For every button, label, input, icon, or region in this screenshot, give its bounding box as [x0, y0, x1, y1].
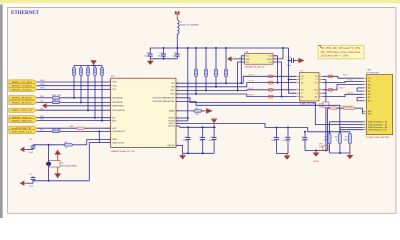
ground LED resistors	[349, 153, 351, 155]
wire	[37, 127, 111, 129]
resistor RD8 10K	[101, 65, 103, 67]
svg-text:IO2: IO2	[246, 62, 249, 64]
svg-text:27: 27	[109, 88, 111, 90]
wire TX+	[323, 76, 364, 78]
wire pin stub	[363, 80, 367, 82]
resistor SR21 DNP nRST line	[77, 127, 84, 129]
ferrite FB2 DNP	[268, 81, 273, 84]
svg-text:C30: C30	[288, 57, 291, 59]
svg-text:XTAL2: XTAL2	[112, 138, 117, 141]
capacitor C77	[32, 176, 34, 177]
port RMII_TXD1	[9, 87, 37, 91]
svg-text:RJ45-CR6-X0TNL: RJ45-CR6-X0TNL	[367, 137, 391, 139]
capacitor CT DNP pair	[323, 102, 329, 107]
wire pin stub	[363, 100, 367, 102]
svg-text:12: 12	[363, 123, 365, 125]
svg-text:1.0uF: 1.0uF	[29, 185, 33, 187]
svg-text:TD_P/N, RD_P/N and TX_P/N,: TD_P/N, RD_P/N and TX_P/N,	[321, 48, 362, 50]
resistor RD7 10K	[94, 65, 96, 67]
capacitor C69	[149, 48, 151, 51]
svg-text:14: 14	[363, 128, 365, 130]
svg-text:LED1/nINT/nPME/REGOFF: LED1/nINT/nPME/REGOFF	[153, 98, 176, 100]
svg-text:RD5: RD5	[79, 69, 82, 71]
capacitor C15	[202, 127, 204, 135]
svg-text:TX+: TX+	[368, 78, 371, 80]
ground SGND	[315, 151, 317, 153]
svg-text:VDD1A: VDD1A	[168, 117, 175, 120]
svg-text:TD-: TD-	[301, 82, 304, 84]
power symbol +3V3 top	[175, 11, 177, 13]
svg-text:12: 12	[109, 119, 111, 121]
svg-text:TXN: TXN	[171, 87, 175, 89]
port RMII_REF_CLK	[9, 129, 37, 133]
ground crystal case bottom	[57, 167, 59, 173]
wire	[37, 130, 52, 132]
wire cap bottoms	[150, 58, 177, 60]
resistor R77 49.9R	[215, 48, 217, 69]
wire pin stub	[363, 111, 367, 113]
wire pin stub	[319, 96, 323, 98]
svg-text:C77: C77	[29, 174, 32, 176]
svg-text:16: 16	[320, 75, 322, 77]
wire xtal top	[33, 144, 64, 146]
svg-text:T17: T17	[300, 70, 303, 72]
wire	[37, 109, 111, 111]
wire strap rail	[74, 64, 102, 66]
svg-text:nRST: nRST	[112, 128, 117, 130]
svg-text:RMII_RXD1: RMII_RXD1	[12, 102, 34, 104]
resistor RD4 10K	[73, 65, 75, 67]
svg-text:SH2: SH2	[368, 114, 372, 116]
resistor shield DNP 2	[343, 107, 355, 109]
resistor R48 1K	[64, 144, 72, 147]
ferrite FB4 DNP	[268, 95, 273, 98]
capacitor C16	[213, 127, 215, 135]
svg-text:VSS_EP: VSS_EP	[167, 145, 175, 147]
wire VBUS to rail	[273, 48, 283, 59]
capacitor C17	[187, 127, 189, 135]
svg-text:TXEN: TXEN	[112, 82, 117, 84]
wire VDD1A VDD2A to rail	[176, 117, 188, 119]
ground crystal case top	[57, 155, 59, 161]
capacitor C19	[276, 128, 278, 136]
wire TXP	[176, 76, 296, 83]
svg-text:15: 15	[320, 78, 322, 80]
wire pin stub	[296, 79, 300, 81]
wire NC stubs	[357, 87, 363, 89]
svg-text:TXD1: TXD1	[112, 89, 116, 91]
ground RXER PHYAD0 strap	[47, 105, 49, 107]
svg-text:VDDCR: VDDCR	[168, 126, 175, 128]
svg-text:100nF: 100nF	[286, 65, 291, 67]
wire pin stub	[363, 129, 367, 131]
svg-text:RD8: RD8	[100, 69, 103, 71]
svg-text:C69: C69	[146, 52, 149, 54]
svg-text:RXER/PHYAD0: RXER/PHYAD0	[112, 105, 124, 108]
wire pin stub	[363, 77, 367, 79]
note box	[318, 45, 364, 59]
wire pin stub	[296, 89, 300, 91]
window left strip	[0, 4, 3, 218]
wire pin stub	[363, 121, 367, 123]
wire IO3 to RD_N	[273, 62, 282, 97]
wire xtal vertical	[48, 145, 50, 181]
svg-text:11: 11	[363, 120, 365, 122]
port RMII_CRS_DV	[9, 108, 37, 112]
svg-text:PD9: PD9	[40, 119, 43, 121]
svg-text:RX+: RX+	[314, 90, 317, 92]
wire SH1 SH2	[362, 111, 365, 113]
capacitor C20	[287, 128, 289, 136]
svg-text:R78: R78	[225, 71, 228, 73]
IC U17 LAN8720A body	[111, 78, 176, 147]
node termination junctions	[225, 82, 227, 84]
resistor RD5 10K	[80, 65, 82, 67]
svg-text:PD02: PD02	[40, 84, 44, 86]
svg-text:TD_N: TD_N	[249, 81, 255, 83]
svg-text:ETHERNET: ETHERNET	[11, 10, 39, 16]
svg-text:15: 15	[109, 127, 111, 129]
svg-text:11: 11	[109, 109, 111, 111]
svg-text:100nF: 100nF	[144, 56, 150, 58]
svg-text:MDIO: MDIO	[112, 120, 117, 122]
svg-text:RD7: RD7	[93, 69, 96, 71]
capacitor C76	[32, 145, 34, 146]
svg-text:RMII_CRS_DV: RMII_CRS_DV	[12, 110, 33, 112]
resistor R21 270R	[348, 134, 351, 144]
svg-text:TD+: TD+	[301, 76, 304, 78]
port RMII_TXD0	[9, 84, 37, 88]
svg-text:NX3225SA 25MHz: NX3225SA 25MHz	[61, 164, 77, 167]
svg-text:CT: CT	[316, 79, 318, 81]
wire IO2 to RD_P	[238, 62, 245, 90]
svg-text:R48: R48	[64, 142, 67, 144]
svg-text:C16: C16	[210, 137, 213, 139]
svg-text:CT: CT	[301, 79, 303, 81]
power VDD core caps	[211, 119, 217, 123]
port RMII_MDC	[9, 116, 37, 120]
svg-text:PD7: PD7	[40, 130, 43, 132]
svg-text:IO4: IO4	[269, 56, 272, 58]
svg-text:RXD0/MODE0: RXD0/MODE0	[112, 98, 123, 100]
svg-text:USBLC6-4SC6: USBLC6-4SC6	[245, 66, 266, 68]
ground core caps	[182, 153, 184, 155]
wire TXN	[176, 83, 296, 87]
svg-text:RD_P: RD_P	[249, 88, 255, 90]
wire pin stub	[319, 89, 323, 91]
wire LED1	[176, 98, 363, 125]
svg-text:RD-: RD-	[301, 96, 304, 98]
svg-text:CN14: CN14	[367, 70, 372, 72]
svg-text:PD8: PD8	[40, 116, 43, 118]
transformer T17 body	[300, 73, 319, 102]
ground C77	[32, 181, 34, 183]
wire IO1 to TD_P	[241, 56, 244, 83]
wire LED2	[176, 101, 363, 129]
svg-text:RD+: RD+	[301, 90, 304, 92]
wire pin stub	[319, 82, 323, 84]
svg-text:LED1Yellow_A: LED1Yellow_A	[368, 121, 388, 124]
svg-text:C19: C19	[273, 137, 276, 139]
svg-text:100nF: 100nF	[271, 140, 276, 142]
svg-text:C21: C21	[301, 137, 304, 139]
wire	[37, 88, 111, 90]
resistor RD6 10K	[87, 65, 89, 67]
svg-text:R47: R47	[195, 108, 198, 110]
svg-text:RD_N: RD_N	[249, 95, 255, 97]
port RMII_RXD1	[9, 100, 37, 104]
svg-text:C76: C76	[29, 139, 32, 141]
ferrite FB5 DNP	[328, 75, 333, 78]
svg-text:RMII_MDIO: RMII_MDIO	[12, 120, 33, 122]
svg-text:100nF: 100nF	[282, 140, 287, 142]
wire 3V3 rail	[150, 47, 289, 49]
svg-text:R19: R19	[324, 137, 327, 139]
wire pin stub	[363, 87, 367, 89]
wire pin stub	[319, 79, 323, 81]
crystal X4 25MHz	[49, 161, 60, 167]
svg-text:CT: CT	[301, 93, 303, 95]
capacitor shield DNP (SGND)	[323, 146, 329, 150]
svg-text:RXD1/MODE1: RXD1/MODE1	[112, 102, 123, 104]
svg-text:LED2Green_K: LED2Green_K	[368, 129, 388, 131]
wire pin stub	[363, 124, 367, 126]
svg-text:MDC: MDC	[112, 117, 116, 119]
svg-text:10: 10	[109, 104, 111, 106]
svg-text:PD4: PD4	[40, 96, 43, 98]
wire	[37, 97, 52, 99]
svg-text:C17: C17	[184, 137, 187, 139]
svg-text:13: 13	[109, 116, 111, 118]
wire pin stub	[363, 90, 367, 92]
resistor R76 49.9R	[205, 48, 207, 69]
resistor R20 1K	[338, 134, 341, 144]
ferrite FB1 DNP	[268, 75, 273, 78]
capacitor C70	[163, 48, 165, 51]
wire	[37, 85, 111, 87]
ground C19 C20	[286, 154, 288, 156]
svg-text:10: 10	[320, 92, 322, 94]
wire caps gnd	[277, 153, 288, 155]
svg-text:TXD0: TXD0	[112, 85, 116, 87]
wire	[37, 120, 111, 122]
window top strip	[0, 0, 400, 3]
connector CN14 body	[367, 75, 393, 135]
svg-text:RD6: RD6	[86, 69, 89, 71]
svg-text:RX_N: RX_N	[348, 93, 354, 95]
svg-text:R17 10R: R17 10R	[52, 129, 62, 131]
ground C76	[26, 148, 33, 150]
svg-text:TX+: TX+	[315, 76, 318, 78]
wire sgnd rail	[305, 150, 328, 152]
IC U18 USBLC6 body	[245, 54, 273, 65]
svg-text:R45 10R: R45 10R	[52, 95, 62, 97]
svg-text:RXN: RXN	[171, 94, 176, 96]
svg-text:600R @ 100MHz: 600R @ 100MHz	[180, 25, 199, 27]
svg-text:C70: C70	[160, 52, 163, 54]
wire VDDIO run	[176, 124, 350, 132]
svg-text:CRS_DV/MODE2: CRS_DV/MODE2	[112, 110, 125, 112]
wire pin stub	[319, 92, 323, 94]
svg-text:TX-: TX-	[315, 82, 318, 84]
wire VSS to gnd	[176, 144, 183, 146]
resistor R78 49.9R	[225, 48, 227, 69]
svg-text:SR21: SR21	[70, 126, 74, 128]
wire led res gnd	[330, 152, 350, 154]
svg-text:XTAL1/CLKIN: XTAL1/CLKIN	[112, 141, 124, 144]
svg-text:LAN8720A-CZ-TR: LAN8720A-CZ-TR	[111, 150, 136, 153]
svg-text:14: 14	[109, 130, 111, 132]
svg-text:TX_P: TX_P	[343, 75, 348, 77]
wire REF_CLK to XTAL1	[98, 130, 100, 132]
wire CT shield	[323, 79, 326, 81]
wire pin stub	[363, 84, 367, 86]
wire	[37, 117, 111, 119]
node rail junctions	[163, 47, 165, 49]
svg-text:PD03: PD03	[40, 88, 44, 90]
svg-text:SGND: SGND	[313, 161, 319, 163]
wire LED anode rows	[330, 121, 364, 123]
svg-text:PD6: PD6	[40, 108, 43, 110]
svg-text:13: 13	[363, 126, 365, 128]
svg-text:12K1: 12K1	[195, 114, 199, 116]
wire pin stub	[363, 97, 367, 99]
wire pin stub	[319, 75, 323, 77]
svg-text:LED2/nINT/nPME/nINTSEL: LED2/nINT/nPME/nINTSEL	[153, 101, 175, 103]
capacitor C21 1uF	[304, 132, 306, 135]
svg-text:U18: U18	[245, 52, 248, 54]
svg-text:nINT/REFCLKO: nINT/REFCLKO	[112, 131, 125, 133]
ground under top caps	[149, 59, 151, 61]
port RMII_RXD0	[9, 96, 37, 100]
svg-text:R77: R77	[215, 71, 218, 73]
resistor R19 270R	[328, 134, 331, 144]
svg-text:RD4: RD4	[72, 69, 75, 71]
svg-text:RX-: RX-	[368, 94, 371, 96]
svg-text:R20: R20	[335, 137, 338, 139]
wire RX-	[323, 94, 364, 96]
wire IO4 to TD_N	[273, 56, 278, 83]
wire pin stub	[296, 75, 300, 77]
ferrite FB3 DNP	[268, 88, 273, 91]
svg-text:RBIAS: RBIAS	[169, 110, 175, 113]
svg-text:RX_P: RX_P	[340, 87, 346, 89]
ferrite FB6 DNP	[328, 88, 333, 91]
wire pin stub	[296, 92, 300, 94]
wire rail to CT	[289, 48, 297, 93]
svg-text:RX+: RX+	[368, 84, 372, 86]
svg-text:26: 26	[109, 84, 111, 86]
wire	[37, 81, 111, 83]
port RMII_TX_EN	[9, 80, 37, 84]
port RMII_MDIO	[9, 119, 37, 123]
svg-text:CT: CT	[316, 93, 318, 95]
wire xtal bottom	[33, 180, 89, 182]
svg-text:1uF: 1uF	[199, 140, 202, 142]
svg-text:14: 14	[320, 81, 322, 83]
wire shield to sgnd	[327, 108, 329, 150]
wire pin stub	[296, 96, 300, 98]
wire RXN	[176, 94, 296, 97]
resistor R47 12K1	[176, 110, 194, 112]
ground USBLC6 GND pin	[234, 58, 245, 60]
wire	[37, 101, 52, 103]
wire XTAL2	[87, 139, 111, 141]
resistor shield DNP 1	[330, 107, 338, 109]
svg-text:C15: C15	[199, 137, 202, 139]
resistor R75 49.9R	[195, 48, 197, 69]
svg-text:VDD2A: VDD2A	[168, 120, 175, 123]
wire RXP	[176, 89, 296, 92]
svg-text:IO1: IO1	[246, 56, 249, 58]
ferrite bead L1	[177, 20, 179, 34]
svg-text:R75: R75	[195, 71, 198, 73]
ground RBIAS	[204, 110, 206, 112]
svg-text:25: 25	[109, 81, 111, 83]
svg-text:100nF: 100nF	[158, 56, 164, 58]
svg-text:RX_P/N have to be routed as: RX_P/N have to be routed as	[321, 51, 362, 54]
wire L1 to rail	[176, 34, 178, 48]
wire pin stub	[363, 126, 367, 128]
svg-text:C71: C71	[173, 52, 176, 54]
svg-text:1.0uF: 1.0uF	[29, 152, 33, 154]
svg-text:R76: R76	[205, 71, 208, 73]
svg-text:R46 10R: R46 10R	[52, 100, 62, 102]
svg-text:TD_P: TD_P	[249, 74, 255, 76]
wire VDDCR caps	[176, 125, 180, 127]
svg-text:100 ohm diff +- 10%: 100 ohm diff +- 10%	[321, 56, 349, 58]
ground C30	[296, 60, 298, 62]
wire pin stub	[296, 82, 300, 84]
capacitor C30	[289, 60, 292, 62]
svg-text:ETHERNET: ETHERNET	[367, 73, 381, 75]
wire pin stub	[363, 93, 367, 95]
svg-text:11: 11	[320, 88, 322, 90]
svg-text:RMII_RXD0: RMII_RXD0	[12, 98, 34, 100]
svg-text:RMII_TXD1: RMII_TXD1	[12, 89, 34, 91]
wire TX-	[323, 81, 364, 82]
svg-text:10: 10	[363, 112, 365, 114]
wire RX+	[323, 85, 364, 90]
wire pin stub	[363, 113, 367, 115]
svg-text:1uF: 1uF	[301, 140, 304, 142]
svg-text:DNP DNP: DNP DNP	[341, 106, 354, 108]
svg-text:PD01: PD01	[40, 80, 44, 82]
svg-text:TX-: TX-	[368, 81, 371, 83]
capacitor C71	[176, 48, 178, 51]
svg-text:100nF: 100nF	[209, 140, 214, 142]
svg-text:PD5: PD5	[40, 101, 43, 103]
svg-text:TX_N: TX_N	[348, 80, 353, 82]
power VDD strap bank	[91, 61, 97, 65]
svg-text:IO3: IO3	[269, 62, 272, 64]
svg-text:C20: C20	[284, 137, 287, 139]
svg-text:470pF: 470pF	[183, 140, 188, 142]
svg-text:RMII_REF_CLK: RMII_REF_CLK	[12, 131, 33, 133]
svg-text:X4: X4	[61, 162, 63, 164]
port nRST	[9, 126, 37, 130]
svg-text:RX-: RX-	[315, 96, 318, 98]
svg-text:R21: R21	[345, 137, 348, 139]
svg-text:LED1Yellow_K: LED1Yellow_K	[368, 124, 388, 126]
wire crystal to XTAL1	[88, 143, 90, 181]
